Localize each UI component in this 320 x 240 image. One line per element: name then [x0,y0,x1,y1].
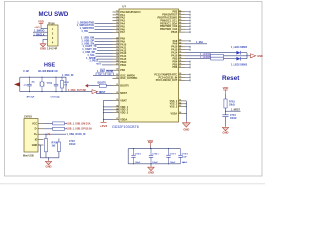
pin BOOT0 (U1 left) [113,85,120,87]
wire stub right pin [185,79,190,81]
pin VSS_1 (U1 right) [179,100,186,102]
capacitor C2 [55,77,57,84]
wire VBUS [44,122,53,124]
svg-text:100nF: 100nF [135,162,141,164]
wire stub right pin [185,66,190,68]
svg-text:10kΩ: 10kΩ [229,105,235,107]
pin PA14 (U1 right) [179,52,186,54]
wire decoupling left end vertical [127,149,129,164]
svg-text:13: 13 [116,19,118,21]
svg-text:PB4/JNTRST: PB4/JNTRST [162,14,177,17]
pin D+ (CN1) [38,133,44,135]
svg-text:PA2: PA2 [120,17,125,20]
svg-text:53: 53 [179,54,181,56]
wire R3 to node NRST [225,108,227,115]
wire stub right pin [185,31,190,33]
wire stub right pin [185,20,190,22]
svg-text:R?03: R?03 [229,101,235,103]
resistor R8 (LED2) [211,57,224,60]
svg-text:21: 21 [116,46,118,48]
svg-text:63: 63 [179,105,181,107]
pin PA12 (U1 left) [113,49,120,51]
wire VDD pin feed [104,118,113,120]
pin PC13-TAMPER-RTC (U1 right) [179,74,186,76]
wire stub right pin [185,11,190,13]
svg-text:1_USB_DP: 1_USB_DP [82,51,95,54]
ground (decoupling bank) [150,166,152,167]
svg-text:1_UART_TX: 1_UART_TX [83,45,97,48]
pin PB7/I2C1_SDA (U1 right) [179,22,186,24]
connector CN1 (Mini USB) body [24,119,38,153]
pin PB6/I2C1_SCL (U1 right) [179,20,186,22]
wire LED cathodes merge [241,52,247,54]
pin PA4 (U1 left) [113,23,120,25]
svg-text:VDDA: VDDA [120,118,127,121]
capacitor C5 (decoupling) [133,149,135,156]
svg-text:PC13-TAMPER-RTC: PC13-TAMPER-RTC [154,73,177,76]
pin PA14 (U1 left) [113,55,120,57]
pin VSS_3 (U1 right) [179,106,186,108]
svg-text:30: 30 [116,77,118,79]
svg-text:OSC: OSC [98,74,103,76]
svg-text:PB5/TRACESWO: PB5/TRACESWO [158,17,178,20]
svg-text:20: 20 [116,43,118,45]
wire stub right pin [185,64,190,66]
pin PB3 (U1 right) [179,58,186,60]
wire net 1_PB11 [99,61,113,63]
pin PB10 (U1 left) [113,61,120,63]
svg-text:Y?01: Y?01 [47,83,53,85]
canvas bottom edge [0,183,265,185]
svg-text:PB9/TIM4_CH4: PB9/TIM4_CH4 [160,28,178,31]
wire stub right pin [185,28,190,30]
svg-text:PA14: PA14 [171,52,178,55]
svg-text:1_LED1R: 1_LED1R [200,53,211,56]
svg-text:1_USB_EN: 1_USB_EN [81,42,94,45]
pin VDD_1 (U1 left) [113,106,120,108]
svg-text:10: 10 [116,11,118,13]
wire net 1_USB_DM [95,38,113,40]
svg-text:52: 52 [179,51,181,53]
svg-text:1_PB11: 1_PB11 [89,60,98,63]
wire stub right pin [185,49,190,51]
wire VDD pin feed [104,109,113,111]
resistor R5 (1k5 pullup) [44,139,47,152]
wire USB D- [44,128,53,130]
wire NRST stub right [226,110,241,112]
svg-text:GD32F103CBT6: GD32F103CBT6 [112,125,139,129]
wire OSC_OUT rail extension [66,91,92,93]
svg-text:17: 17 [116,31,118,33]
ic U1 body (GD32F103 MCU) [119,9,179,122]
svg-text:PA13: PA13 [171,49,178,52]
wire OSC_IN [93,74,113,76]
wire decoupling bottom rail [128,163,180,165]
junction NRST [225,111,226,112]
capacitor C6 (decoupling) [150,149,152,156]
svg-text:ID: ID [35,139,38,142]
pin PB3 (U1 right) [179,11,186,13]
wire net 1_UART_RX [97,49,113,51]
pin OSC_OUT/PD1 (U1 left) [113,77,120,79]
pin PB5/TRACESWO (U1 right) [179,17,186,19]
off-sheet flag OSC left [14,82,20,86]
svg-text:PA1: PA1 [120,14,125,17]
wire HSE right vertical [65,77,67,91]
svg-text:57: 57 [179,66,181,68]
svg-text:1_LED2 D0805: 1_LED2 D0805 [231,64,248,66]
pin PA10 (U1 right) [179,46,186,48]
pin PA5 (U1 left) [113,26,120,28]
svg-text:OSC_IN/PD0: OSC_IN/PD0 [120,74,135,77]
svg-text:15: 15 [116,25,118,27]
wire USB D+ [44,133,67,135]
pin PB5 (U1 right) [179,64,186,66]
pin PB8/TIM4_CH3 (U1 right) [179,25,186,27]
net port box OSC_IN [96,73,104,76]
svg-text:Mini USB: Mini USB [23,154,34,157]
pin VDDA (U1 left) [113,118,120,120]
svg-text:1M: 1M [64,85,67,87]
resistor R2 (BOOT0 pulldown) [99,84,106,87]
svg-text:U?: U? [122,4,126,8]
wire VDD pin feed [104,106,113,108]
pin VDD_2 (U1 left) [113,109,120,111]
svg-text:35: 35 [116,108,118,110]
junction GND rail [48,157,49,158]
pin VSSA (U1 right) [179,112,186,114]
svg-text:PB7/I2C1_SDA: PB7/I2C1_SDA [160,22,177,25]
svg-text:MCU SWD: MCU SWD [39,11,69,18]
pin PB4 (U1 right) [179,61,186,63]
svg-text:VCC: VCC [32,122,37,125]
svg-text:PB3: PB3 [172,11,177,14]
pin PA8 (U1 left) [113,38,120,40]
pin PA3 (U1 left) [113,20,120,22]
pin PA6 (U1 left) [113,28,120,30]
pin PB2 (U1 left) [113,69,120,71]
pin VDD_3 (U1 left) [113,112,120,114]
svg-text:1_OSC_OUT 8M: 1_OSC_OUT 8M [68,90,86,92]
svg-text:PB2: PB2 [120,69,125,72]
svg-text:1_OSC_IN: 1_OSC_IN [62,75,74,77]
svg-text:1_Mot: 1_Mot [196,41,203,44]
pin GND (CN1) [38,144,44,146]
wire BOOT0 [88,85,112,87]
svg-text:VSS_1: VSS_1 [170,100,178,103]
junction D+ pullup [45,134,46,135]
svg-text:VDD_3: VDD_3 [120,112,129,115]
svg-text:1_USB_DP: 1_USB_DP [81,39,94,42]
resistor R7 (LED1) [211,54,224,57]
svg-text:PA14: PA14 [120,55,127,58]
svg-text:VDD_2: VDD_2 [120,109,129,112]
svg-text:VBAT: VBAT [120,99,127,102]
svg-text:100nF: 100nF [152,162,158,164]
svg-text:1_SWDIO/TMS: 1_SWDIO/TMS [77,21,94,24]
svg-text:PA13: PA13 [120,52,127,55]
svg-text:29: 29 [116,74,118,76]
svg-text:PB15: PB15 [171,31,178,34]
pin PB15 (U1 right) [179,31,186,33]
svg-text:32: 32 [116,92,118,94]
capacitor C8 (decoupling) [180,149,182,156]
svg-text:PA4: PA4 [120,23,125,26]
wire stub right pin [185,40,190,42]
wire R7 out [224,55,248,57]
wire NRST [96,92,113,94]
svg-text:C 1M: C 1M [23,71,29,73]
svg-text:VSS_3: VSS_3 [170,106,178,109]
wire HSE top rail [20,76,66,78]
svg-text:C?06 1: C?06 1 [152,153,158,155]
pin PA13 (U1 left) [113,52,120,54]
svg-text:NRST: NRST [120,92,127,95]
svg-text:CN?03: CN?03 [24,116,32,119]
svg-text:12: 12 [116,16,118,18]
wire net 1_SCL [96,55,113,57]
pin PA0-WKUP/ADC0 (U1 left) [113,11,120,13]
resistor R1 (feedback) [61,77,63,80]
pin VBAT (U1 left) [113,99,120,101]
wire VDD to JP1 pin1 [40,27,42,29]
connector JP1 (SWD header) [48,25,59,46]
svg-text:1_SPDIF: 1_SPDIF [86,57,96,60]
svg-text:PA9: PA9 [120,41,125,44]
wire decoupling gnd stub [150,164,152,166]
pin VCC (CN1) [38,122,44,124]
svg-text:31: 31 [116,84,118,86]
svg-text:VSS_2: VSS_2 [170,103,178,106]
ground (reset) [225,126,227,127]
pin PA9 (U1 left) [113,41,120,43]
svg-text:56: 56 [179,63,181,65]
pin PA15 (U1 left) [113,58,120,60]
svg-text:16: 16 [116,28,118,30]
svg-text:36: 36 [116,111,118,113]
svg-text:+3V3: +3V3 [34,27,40,29]
svg-text:C 1M: C 1M [52,71,58,73]
wire net 1_SWCLK/TCK [95,26,113,28]
svg-text:HSE: HSE [44,63,55,69]
wire VDD pin feed [104,99,113,101]
wire header pin4 to GND [43,38,48,40]
wire HSE bottom rail [20,91,66,93]
wire D+ to pullup resistor [45,134,47,138]
wire pullup bottoms to GND rail [45,152,47,158]
wire VDD pin feed [104,112,113,114]
svg-text:OSC: OSC [108,74,113,76]
ferrite bead FB1 [53,122,65,125]
pin ID (CN1) [38,139,44,141]
pin PA7 (U1 left) [113,31,120,33]
svg-text:VDD_1: VDD_1 [120,106,129,109]
svg-text:PC14-OSC32_IN: PC14-OSC32_IN [158,76,177,79]
svg-text:+3V3: +3V3 [100,124,108,128]
pin PA2 (U1 left) [113,17,120,19]
wire LED2 feed lower [185,58,211,60]
svg-text:1_LED1 D0805: 1_LED1 D0805 [231,47,248,49]
wire stub right pin [185,17,190,19]
svg-text:PC15-OSC32_OUT: PC15-OSC32_OUT [156,79,178,82]
svg-text:PA15: PA15 [120,58,127,61]
no-connect mark red x (D+) [48,133,50,135]
off-sheet flag BOOT0 [85,84,88,88]
resistor R3 (10k pullup) [224,99,227,108]
svg-text:1_USB_DM: 1_USB_DM [81,37,94,40]
wire net 1_UART_TX [97,47,113,49]
svg-text:1_SCL: 1_SCL [87,54,95,57]
svg-text:60: 60 [179,79,181,81]
svg-text:PA12: PA12 [120,49,127,52]
svg-text:PA9: PA9 [173,43,178,46]
svg-text:61: 61 [179,99,181,101]
svg-text:1_TDI: 1_TDI [81,30,88,33]
svg-text:PA15: PA15 [171,55,178,58]
svg-text:1_USB_ID OK_ID: 1_USB_ID OK_ID [67,134,86,136]
wire net 1_MCO [102,64,113,66]
ground (SWD header) [42,43,44,44]
wire stub right pin [185,61,190,63]
svg-text:PA11: PA11 [120,46,126,49]
sheet border frame [5,2,263,177]
svg-text:PA10: PA10 [171,46,178,49]
svg-text:OSC_OUT/PD1: OSC_OUT/PD1 [120,77,138,80]
sheet background [0,0,265,191]
svg-text:PA8: PA8 [120,38,125,41]
capacitor C7 (decoupling) [168,149,170,156]
svg-text:59: 59 [179,76,181,78]
svg-text:1_UART_RX: 1_UART_RX [82,48,97,51]
svg-text:37: 37 [116,118,118,120]
svg-text:GND: GND [257,55,263,58]
svg-text:100nF: 100nF [230,118,237,120]
power flag GND arrow (LED) [251,54,256,58]
svg-text:VSSA: VSSA [171,112,178,115]
pin VSS_2 (U1 right) [179,103,186,105]
svg-text:PB6: PB6 [172,66,177,69]
svg-text:58: 58 [179,73,181,75]
svg-text:PA7: PA7 [120,31,125,34]
svg-text:27: 27 [116,63,118,65]
svg-text:1_LED2R: 1_LED2R [200,56,211,59]
svg-text:33: 33 [116,99,118,101]
svg-text:PA6: PA6 [120,28,125,31]
svg-text:PB11: PB11 [120,64,127,67]
capacitor C1 [29,77,31,84]
svg-text:PB8/TIM4_CH3: PB8/TIM4_CH3 [160,25,178,28]
pin PB4/JNTRST (U1 right) [179,14,186,16]
svg-text:1_SWCLK/TCK: 1_SWCLK/TCK [77,24,95,27]
svg-text:C?C: C?C [24,85,29,87]
wire stub right pin [185,14,190,16]
wire net 1_SPDIF [97,58,113,60]
wire VDD bus vertical [103,100,105,122]
led D2 [236,57,240,61]
pin PC15-OSC32_OUT (U1 right) [179,79,186,81]
svg-text:BOOT0: BOOT0 [120,85,129,88]
svg-text:PA3: PA3 [120,20,125,23]
svg-text:100nF: 100nF [69,144,76,146]
wire LED1 from PA14 [185,52,236,54]
svg-text:PA0-WKUP/ADC0: PA0-WKUP/ADC0 [120,11,141,14]
power flag +3V3 [101,121,107,123]
svg-text:PA10: PA10 [120,44,127,47]
svg-text:51: 51 [179,48,181,50]
svg-text:PB3: PB3 [172,58,177,61]
pin PC14-OSC32_IN (U1 right) [179,76,186,78]
crystal Y1 [41,77,43,81]
svg-text:D-: D- [35,128,38,131]
svg-text:PB10: PB10 [120,61,127,64]
wire stub right pin [185,22,190,24]
wire net 1_SWO/TDO [95,28,113,30]
svg-text:PB6/I2C1_SCL: PB6/I2C1_SCL [160,19,177,22]
wire header pin2 [33,31,48,33]
svg-text:19: 19 [116,40,118,42]
wire net 1_SWDIO/TMS [95,23,113,25]
wire net 1_USB_DP [96,52,113,54]
svg-text:PB5: PB5 [172,63,177,66]
svg-text:62: 62 [179,102,181,104]
svg-text:100nF: 100nF [170,162,176,164]
svg-text:Reset: Reset [222,75,240,82]
svg-text:1_NRST: 1_NRST [231,110,241,112]
wire header pin3 [33,35,48,37]
svg-text:GND: GND [32,144,38,147]
pin PA13 (U1 right) [179,49,186,51]
wire stub right pin [185,76,190,78]
svg-text:C?03 22p: C?03 22p [51,96,61,98]
wire net 1_TDI [89,31,113,33]
svg-text:28: 28 [116,69,118,71]
pin D- (CN1) [38,128,44,130]
wire decoupling top rail [128,148,180,150]
wire stub right pin [185,25,190,27]
wire VSS bus [185,100,186,102]
wire C4 to GND [225,117,227,127]
wire VDD to R3 [225,94,227,99]
wire LED2 feed upper [185,55,211,57]
pin PA9 (U1 right) [179,43,186,45]
wire CN1 GND down [38,144,40,146]
svg-text:55: 55 [179,60,181,62]
svg-text:MCO: MCO [96,64,101,66]
led D1 [236,51,240,55]
pin OSC_IN/PD0 (U1 left) [113,74,120,76]
svg-text:C?08 1: C?08 1 [182,153,188,155]
pin PA1 (U1 left) [113,14,120,16]
svg-text:50: 50 [179,45,181,47]
pin NRST (U1 left) [113,92,120,94]
off-sheet flag OSC_OUT right [92,90,98,94]
pin PA8 (U1 right) [179,40,186,42]
wire stub right pin [185,46,190,48]
resistor R6 (second pullup) [57,142,60,152]
svg-text:R?01: R?01 [64,82,69,84]
svg-text:PA5: PA5 [120,25,125,28]
wire net 1_Mot [185,43,207,45]
resistor R4 (D- series) [53,127,65,130]
svg-text:R?06: R?06 [52,142,58,144]
svg-text:18: 18 [116,37,118,39]
svg-text:22: 22 [116,49,118,51]
pin PB9/TIM4_CH4 (U1 right) [179,28,186,30]
wire net 1_USB_DP [95,41,113,43]
capacitor C4 [222,114,228,116]
wire stub right pin [185,74,190,76]
svg-text:C?07 1: C?07 1 [170,153,176,155]
